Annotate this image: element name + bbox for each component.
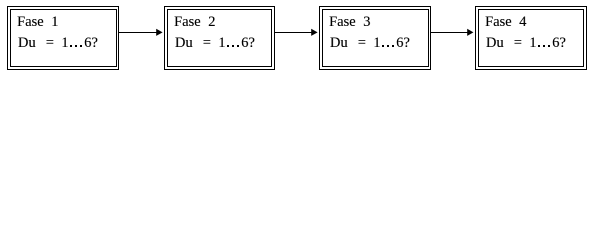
label Fase 4 line 2 Du = 1...6? bbox=[486, 36, 504, 50]
block Fase 3 inner border bbox=[323, 10, 429, 67]
label Fase 3 line 2 Du = 1...6? bbox=[330, 36, 348, 50]
label Fase 1 line 2 Du = 1...6? bbox=[18, 36, 36, 50]
block Fase 3 outer border bbox=[320, 7, 431, 70]
label Fase 2 line 2 Du = 1...6? bbox=[175, 36, 193, 50]
label Fase 2 line 1 bbox=[174, 15, 201, 29]
label Fase 4 line 1 bbox=[485, 15, 512, 29]
block Fase 2 inner border bbox=[168, 10, 272, 67]
block Fase 1 inner border bbox=[11, 10, 117, 67]
block Fase 2 outer border bbox=[165, 7, 275, 70]
label Fase 1 line 1 bbox=[17, 15, 44, 29]
arrowhead 3 bbox=[467, 29, 473, 36]
block Fase 4 inner border bbox=[479, 10, 584, 67]
arrowhead 2 bbox=[311, 29, 317, 36]
wire arrow 2 shaft bbox=[275, 32, 313, 34]
label Fase 3 line 1 bbox=[329, 15, 356, 29]
arrowhead 1 bbox=[156, 29, 162, 36]
block Fase 1 outer border bbox=[8, 7, 119, 70]
block Fase 4 outer border bbox=[476, 7, 587, 70]
wire arrow 1 shaft bbox=[119, 32, 158, 34]
wire arrow 3 shaft bbox=[431, 32, 469, 34]
